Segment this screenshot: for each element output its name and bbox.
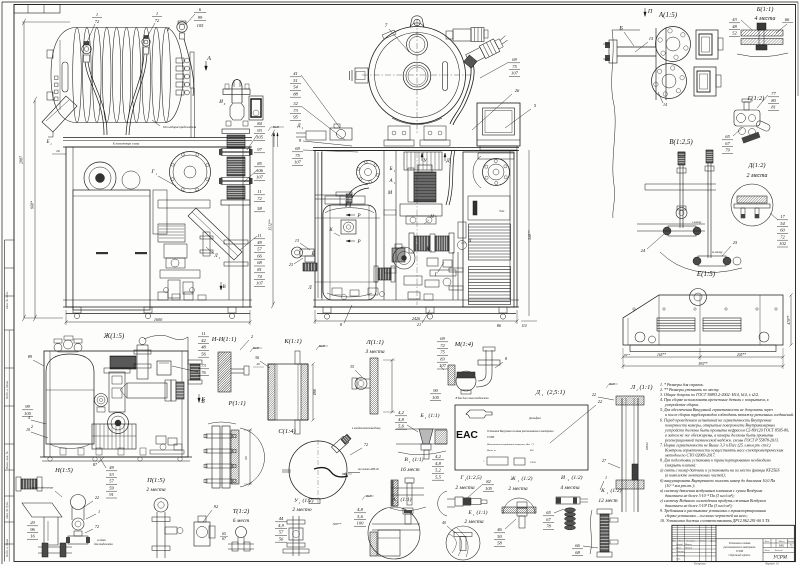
svg-text:В бак для слива конденсата: В бак для слива конденсата bbox=[455, 397, 489, 400]
svg-text:(2,5:1): (2,5:1) bbox=[547, 389, 565, 396]
detail G1 drawing bbox=[438, 491, 447, 516]
svg-text:10: 10 bbox=[26, 427, 30, 432]
detail E1 zoom circle with wood arcs bbox=[446, 526, 480, 560]
dim 86 and right extension bbox=[528, 150, 530, 316]
detail M trap pot bbox=[456, 381, 476, 391]
hose from valve 2 bbox=[126, 54, 144, 135]
svg-text:Взам. инв. №: Взам. инв. № bbox=[5, 451, 9, 469]
svg-text:Rz40: Rz40 bbox=[365, 495, 372, 498]
svg-text:Г(1:2): Г(1:2) bbox=[747, 95, 765, 102]
svg-text:44: 44 bbox=[279, 516, 284, 521]
svg-text:11: 11 bbox=[257, 233, 261, 238]
detail I1 drawing bbox=[556, 497, 580, 504]
detail N flange cross bbox=[68, 536, 88, 544]
svg-text:12 мест: 12 мест bbox=[598, 498, 617, 504]
column flange pair 1 bbox=[221, 149, 250, 152]
svg-text:Формат А1: Формат А1 bbox=[765, 563, 779, 566]
sensor cluster top-right 1 bbox=[446, 31, 453, 39]
svg-text:из бака: из бака bbox=[97, 539, 106, 542]
detail A1 inner corner structure bbox=[403, 508, 413, 514]
detail U1 flange stack bbox=[292, 516, 294, 556]
svg-text:№ докум.: № докум. bbox=[686, 540, 696, 543]
machinery column center view1 bbox=[153, 190, 167, 234]
view Zh right valve cluster bbox=[156, 436, 166, 444]
tabletop view2 bbox=[313, 147, 519, 149]
cabinet door panel bbox=[73, 190, 150, 310]
svg-text:Е(1:5): Е(1:5) bbox=[696, 270, 716, 278]
view Zh central tower bbox=[109, 372, 125, 412]
svg-text:1: 1 bbox=[605, 475, 607, 480]
svg-text:81: 81 bbox=[257, 267, 262, 272]
svg-text:53: 53 bbox=[109, 472, 114, 477]
detail B1 countersunk bolt bbox=[419, 429, 433, 444]
svg-text:68: 68 bbox=[575, 550, 580, 555]
detail C foot bbox=[309, 499, 320, 504]
svg-text:К(1:1): К(1:1) bbox=[283, 338, 301, 345]
svg-text:Разраб.: Разраб. bbox=[675, 543, 683, 546]
detail I-I bolt bbox=[231, 368, 244, 370]
svg-text:Б: Б bbox=[389, 167, 393, 172]
svg-text:49: 49 bbox=[257, 240, 262, 245]
vessel end circle inner bbox=[375, 33, 460, 118]
svg-text:77: 77 bbox=[771, 91, 776, 96]
pressure transmitter I6 bbox=[249, 96, 263, 120]
valve on vessel top (pos.1/72) bbox=[82, 44, 92, 54]
svg-text:72: 72 bbox=[364, 442, 368, 447]
view Zh small box with leader 73-76 bbox=[157, 361, 171, 375]
svg-text:72: 72 bbox=[440, 343, 445, 348]
svg-text:(1:2): (1:2) bbox=[303, 497, 314, 504]
title block outer bbox=[672, 525, 795, 561]
svg-text:49: 49 bbox=[109, 465, 114, 470]
svg-text:66: 66 bbox=[575, 543, 580, 548]
detail V lower plate bbox=[637, 223, 705, 225]
detail R bolts bbox=[206, 434, 232, 438]
svg-text:В(1:2,5): В(1:2,5) bbox=[669, 138, 693, 146]
svg-text:УСРМ: УСРМ bbox=[487, 436, 495, 439]
svg-text:110: 110 bbox=[521, 324, 526, 328]
svg-text:2 места: 2 места bbox=[508, 486, 527, 492]
detail Zh1 drawing bbox=[503, 498, 535, 514]
svg-text:67: 67 bbox=[546, 517, 551, 522]
nameplate rectangle bbox=[455, 405, 588, 470]
svg-text:90: 90 bbox=[433, 388, 438, 393]
svg-text:16: 16 bbox=[30, 534, 35, 539]
svg-text:22: 22 bbox=[95, 495, 99, 500]
detail A upper flange circle bbox=[656, 27, 691, 62]
svg-text:УСРМ: УСРМ bbox=[773, 556, 788, 561]
svg-text:60: 60 bbox=[780, 228, 785, 233]
svg-text:595**: 595** bbox=[699, 362, 708, 366]
detail L union fitting bbox=[356, 378, 370, 380]
cabinet base view2 bbox=[313, 299, 519, 301]
hose from panel down bbox=[446, 150, 452, 205]
discharge chute E1 bbox=[42, 96, 77, 132]
svg-text:107: 107 bbox=[294, 160, 302, 165]
detail B bolt bbox=[757, 23, 766, 30]
svg-text:17: 17 bbox=[780, 214, 785, 219]
svg-text:69: 69 bbox=[295, 146, 300, 151]
svg-text:(1:1): (1:1) bbox=[477, 509, 488, 516]
svg-text:2 места: 2 места bbox=[464, 519, 483, 525]
column bellows 3 bbox=[227, 186, 245, 199]
view Zh tank bbox=[46, 354, 94, 444]
column flange pair 2 bbox=[221, 178, 250, 181]
svg-text:Б: Б bbox=[200, 397, 205, 403]
cooler grille upper bbox=[469, 224, 511, 260]
svg-text:Утв.: Утв. bbox=[676, 558, 681, 560]
detail L dims right bbox=[383, 359, 395, 361]
svg-text:Лит.: Лит. bbox=[764, 541, 770, 543]
svg-text:165**: 165** bbox=[657, 353, 666, 357]
view1 left vertical dimension 2087 bbox=[23, 22, 25, 318]
cabinet centerline view2 bbox=[416, 152, 418, 305]
detail D channel section bbox=[737, 196, 767, 203]
left margin column boxes bbox=[5, 239, 15, 241]
svg-text:Л: Л bbox=[630, 384, 636, 391]
svg-text:на клапан АВЗ-26: на клапан АВЗ-26 bbox=[358, 468, 379, 471]
svg-text:40: 40 bbox=[256, 362, 260, 366]
svg-text:99: 99 bbox=[198, 15, 203, 20]
svg-text:Д: Д bbox=[445, 158, 450, 164]
detail B drawing plates bbox=[741, 30, 783, 36]
svg-text:65: 65 bbox=[546, 510, 551, 515]
svg-text:Дата: Дата bbox=[709, 541, 716, 543]
svg-text:50: 50 bbox=[497, 534, 502, 539]
detail V upper plate bbox=[645, 183, 716, 185]
svg-text:90: 90 bbox=[244, 456, 248, 460]
svg-text:1: 1 bbox=[542, 393, 544, 397]
view1 bottom dimension 1600 bbox=[66, 321, 250, 323]
svg-text:52: 52 bbox=[732, 31, 737, 36]
svg-text:2: 2 bbox=[251, 334, 253, 339]
svg-text:Подп. и дата: Подп. и дата bbox=[5, 381, 9, 401]
svg-text:2 место: 2 место bbox=[292, 507, 311, 513]
top-left small pad bbox=[382, 30, 396, 39]
svg-text:85: 85 bbox=[257, 161, 262, 166]
vessel right nozzles bbox=[176, 58, 184, 63]
title block designation cell bbox=[716, 538, 794, 540]
pump block under motor bbox=[400, 204, 442, 216]
svg-text:распознаваемого материала: распознаваемого материала bbox=[723, 546, 756, 549]
cabinet base view1 bbox=[63, 299, 252, 301]
svg-text:Ж: Ж bbox=[509, 476, 516, 482]
svg-text:К коллектору слива: К коллектору слива bbox=[112, 142, 140, 146]
svg-text:11: 11 bbox=[201, 331, 205, 336]
center porthole bbox=[403, 62, 431, 90]
svg-text:16 мест: 16 мест bbox=[400, 467, 419, 473]
svg-text:35: 35 bbox=[350, 364, 354, 369]
detail L1 top flange bbox=[616, 396, 644, 405]
flex hose to panel bbox=[450, 63, 471, 124]
tank port square with circle bbox=[341, 220, 356, 234]
detail A lower flange circle bbox=[652, 64, 687, 99]
svg-text:65: 65 bbox=[222, 532, 226, 536]
left pipes view2 bbox=[317, 152, 319, 298]
svg-text:40: 40 bbox=[442, 521, 446, 525]
central vertical duct view2 bbox=[383, 151, 385, 300]
column bellows 2 bbox=[227, 157, 245, 176]
svg-text:10. Установка должна соответст: 10. Установка должна соответствовать ДР1… bbox=[660, 518, 770, 523]
view Zh pump circle bbox=[108, 413, 129, 434]
svg-text:Подп. и дата: Подп. и дата bbox=[5, 539, 9, 559]
svg-text:Ж(1:5): Ж(1:5) bbox=[103, 332, 125, 340]
svg-text:54: 54 bbox=[293, 85, 298, 90]
svg-text:66: 66 bbox=[785, 17, 790, 22]
svg-text:1512**: 1512** bbox=[269, 219, 273, 230]
svg-text:107: 107 bbox=[256, 281, 264, 286]
sheet outer border bbox=[2, 1, 798, 3]
svg-text:56: 56 bbox=[279, 536, 284, 541]
detail E vents bbox=[657, 318, 695, 331]
detail A left flange bbox=[609, 40, 617, 63]
detail A1 zoom circle bbox=[368, 507, 420, 559]
svg-text:4 места: 4 места bbox=[755, 15, 776, 22]
svg-text:105: 105 bbox=[256, 135, 264, 140]
svg-text:11: 11 bbox=[257, 189, 261, 194]
svg-text:В: В bbox=[222, 285, 225, 290]
top-left corner stamp box bbox=[14, 5, 60, 14]
svg-text:41: 41 bbox=[293, 71, 298, 76]
svg-text:107: 107 bbox=[439, 363, 447, 368]
vessel centerlines bbox=[416, 20, 418, 133]
fan housing top right bbox=[483, 159, 510, 186]
svg-text:Л(1:1): Л(1:1) bbox=[365, 339, 383, 346]
vessel shell with bellows (pos.1) bbox=[51, 28, 74, 123]
pump circle left bbox=[84, 162, 116, 194]
column legs below bbox=[228, 205, 230, 300]
valves row bottom of cabinet view1 bbox=[158, 292, 168, 300]
svg-text:72: 72 bbox=[257, 196, 262, 201]
detail A horizontal pipe bbox=[617, 46, 656, 48]
svg-text:57: 57 bbox=[279, 530, 284, 535]
detail A upper sensor bbox=[696, 30, 718, 59]
svg-text:73: 73 bbox=[293, 108, 298, 113]
finned motor dark bbox=[408, 168, 414, 202]
svg-text:48: 48 bbox=[201, 345, 206, 350]
svg-text:ЕАС: ЕАС bbox=[499, 210, 504, 213]
detail V tee fitting 1 bbox=[668, 226, 696, 236]
svg-text:69: 69 bbox=[512, 57, 517, 62]
tank top fittings bbox=[340, 196, 348, 205]
detail L1 fitting dark bbox=[632, 464, 638, 480]
svg-text:4 места: 4 места bbox=[560, 484, 579, 491]
leaders from mid stacks bbox=[301, 75, 340, 128]
hose fitting bbox=[464, 55, 477, 68]
svg-text:2426: 2426 bbox=[412, 316, 421, 321]
svg-text:72: 72 bbox=[155, 18, 160, 23]
svg-text:57: 57 bbox=[109, 479, 114, 484]
svg-text:46: 46 bbox=[497, 527, 502, 532]
leaders from stacks bbox=[247, 135, 257, 150]
svg-text:58: 58 bbox=[257, 206, 262, 211]
view Zh compressor head dark bbox=[110, 356, 136, 369]
detail M pipe and flange bbox=[485, 350, 487, 374]
svg-text:83: 83 bbox=[440, 356, 445, 361]
pressure sensor T (pos.6) bbox=[177, 22, 187, 32]
lifting lug bbox=[410, 16, 424, 27]
small flanged pipe center bbox=[203, 232, 210, 256]
svg-text:14: 14 bbox=[663, 102, 667, 107]
svg-text:26: 26 bbox=[56, 149, 60, 153]
detail E plinth bbox=[630, 345, 776, 352]
cabinet frame view1 bbox=[66, 147, 250, 307]
svg-text:И-И(1:1): И-И(1:1) bbox=[211, 336, 237, 343]
svg-text:960*: 960* bbox=[30, 201, 35, 209]
svg-text:Е: Е bbox=[45, 140, 49, 145]
hose from sensor T bbox=[184, 39, 194, 96]
svg-text:23: 23 bbox=[289, 262, 293, 267]
dim 2426 bottom view2 bbox=[315, 320, 517, 322]
svg-text:П(1:5): П(1:5) bbox=[146, 477, 165, 484]
svg-text:Ø90: Ø90 bbox=[313, 389, 317, 396]
svg-text:6 мест: 6 мест bbox=[233, 518, 249, 524]
column wide flange bbox=[222, 129, 250, 134]
svg-text:102: 102 bbox=[779, 241, 787, 246]
detail N cylinder bbox=[71, 495, 86, 510]
svg-text:66: 66 bbox=[257, 253, 262, 258]
svg-text:97: 97 bbox=[257, 147, 262, 152]
detail G drawing bbox=[734, 110, 760, 126]
svg-text:Б: Б bbox=[618, 26, 623, 32]
svg-text:79: 79 bbox=[725, 148, 730, 153]
svg-text:80: 80 bbox=[771, 98, 776, 103]
svg-text:478**: 478** bbox=[787, 315, 791, 324]
svg-text:21: 21 bbox=[417, 322, 421, 327]
title block middle name cell bbox=[715, 525, 717, 561]
svg-text:59**: 59** bbox=[624, 353, 631, 357]
svg-text:ЕАС: ЕАС bbox=[456, 429, 478, 441]
svg-text:96: 96 bbox=[30, 527, 35, 532]
detail V tee fitting 2 bbox=[698, 256, 726, 266]
svg-text:из напору: из напору bbox=[712, 251, 723, 254]
view Zh small bottom items bbox=[60, 448, 66, 455]
svg-text:72: 72 bbox=[95, 19, 100, 24]
svg-text:Н.контр.: Н.контр. bbox=[675, 555, 685, 557]
pump flange circle G1 bbox=[170, 152, 211, 193]
detail I-I hatched pad bbox=[218, 352, 231, 392]
cabinet frame view2 bbox=[315, 151, 517, 308]
svg-text:(1:1): (1:1) bbox=[401, 496, 412, 503]
cooler grille lower bbox=[469, 267, 511, 305]
svg-text:58: 58 bbox=[497, 541, 502, 546]
view Zh right bellows pipe bbox=[171, 380, 176, 401]
svg-text:72: 72 bbox=[780, 234, 785, 239]
bellows corrugation ribs bbox=[73, 28, 82, 123]
svg-text:Е: Е bbox=[467, 510, 472, 516]
svg-text:107: 107 bbox=[256, 175, 264, 180]
svg-text:107: 107 bbox=[511, 71, 519, 76]
svg-text:65: 65 bbox=[725, 134, 730, 139]
svg-text:4: 4 bbox=[28, 415, 30, 420]
view Zh vertical assembly right of compressor bbox=[137, 345, 148, 379]
svg-text:13: 13 bbox=[295, 238, 299, 243]
detail T drawing valve bbox=[236, 527, 247, 538]
svg-text:1: 1 bbox=[636, 388, 638, 392]
svg-text:105: 105 bbox=[197, 23, 205, 28]
svg-text:24: 24 bbox=[641, 248, 646, 253]
svg-text:15: 15 bbox=[649, 36, 654, 41]
detail E1 T-bolt bbox=[454, 533, 472, 537]
svg-text:51: 51 bbox=[293, 78, 298, 83]
svg-text:с напору: с напору bbox=[692, 221, 702, 224]
view Zh finned radiator bbox=[92, 424, 136, 449]
upper striped pump head bbox=[404, 152, 442, 170]
svg-text:Т.контр.: Т.контр. bbox=[676, 551, 684, 553]
svg-text:82: 82 bbox=[486, 479, 491, 484]
pressure regulator device bbox=[194, 522, 210, 546]
svg-text:72: 72 bbox=[95, 524, 99, 529]
svg-text:2087: 2087 bbox=[19, 155, 24, 164]
svg-text:205**: 205** bbox=[737, 353, 746, 357]
sensor cluster top-right 2 bbox=[465, 33, 511, 65]
svg-text:М(1:4): М(1:4) bbox=[454, 341, 473, 348]
svg-text:Сборочный чертеж: Сборочный чертеж bbox=[728, 554, 751, 557]
dark valve right of tank bbox=[392, 248, 405, 262]
view Zh elbow duct right bbox=[127, 383, 167, 398]
hose from valve 1 bbox=[85, 62, 104, 135]
svg-text:20: 20 bbox=[30, 520, 35, 525]
svg-text:2 места: 2 места bbox=[747, 173, 768, 179]
svg-text:92: 92 bbox=[214, 504, 219, 509]
detail C spout bbox=[331, 434, 351, 453]
svg-text:Р(1:1): Р(1:1) bbox=[228, 400, 246, 407]
detail V plug 2 bbox=[706, 150, 713, 163]
detail B break arc bbox=[737, 53, 788, 57]
svg-text:П: П bbox=[647, 9, 653, 15]
detail C drum circle bbox=[289, 441, 347, 499]
svg-text:Петров: Петров bbox=[684, 548, 692, 550]
detail A lower sensor bbox=[694, 67, 716, 96]
view Zh gauge circle bbox=[95, 394, 108, 407]
svg-text:42: 42 bbox=[201, 338, 206, 343]
svg-text:(1:1): (1:1) bbox=[429, 412, 440, 419]
diagonal duct L1 bbox=[188, 208, 242, 260]
svg-text:67: 67 bbox=[725, 141, 730, 146]
svg-text:54: 54 bbox=[780, 221, 785, 226]
svg-text:(1:2,5): (1:2,5) bbox=[466, 474, 481, 481]
detail L1 bottom flange bbox=[616, 480, 644, 489]
detail E bottom circles bbox=[635, 332, 645, 342]
svg-text:43: 43 bbox=[732, 17, 737, 22]
svg-text:Н(1:5): Н(1:5) bbox=[54, 467, 73, 474]
svg-text:56: 56 bbox=[201, 351, 206, 356]
view Zh right bellows outside bbox=[188, 360, 202, 364]
svg-text:Инв. № дубл.: Инв. № дубл. bbox=[5, 501, 9, 520]
view Zh base bbox=[40, 456, 192, 458]
detail N bottom tee bbox=[38, 546, 72, 548]
control panel monitor (pos.5) bbox=[477, 103, 520, 146]
svg-text:Масштаб: Масштаб bbox=[786, 540, 795, 543]
svg-text:75: 75 bbox=[440, 350, 445, 355]
svg-text:Л: Л bbox=[307, 286, 312, 291]
svg-text:Инв. № подл.: Инв. № подл. bbox=[5, 291, 9, 310]
detail N top bellows bbox=[16, 477, 21, 491]
svg-text:Масса: Масса bbox=[778, 541, 786, 543]
svg-text:Г: Г bbox=[434, 273, 438, 278]
column bottom flange bbox=[221, 200, 250, 205]
svg-text:74: 74 bbox=[257, 274, 262, 279]
svg-text:Копировал: Копировал bbox=[693, 563, 707, 566]
left flange port bbox=[355, 68, 368, 83]
svg-text:Листов 1: Листов 1 bbox=[774, 550, 784, 552]
detail V valve on stem1 bbox=[676, 208, 687, 219]
upper porthole bbox=[407, 34, 428, 55]
detail C handle curve bbox=[314, 468, 348, 477]
view Zh tank top fittings bbox=[54, 344, 62, 352]
svg-text:к теплообменнику: к теплообменнику bbox=[30, 486, 54, 490]
svg-text:УСРМ: УСРМ bbox=[736, 550, 744, 553]
